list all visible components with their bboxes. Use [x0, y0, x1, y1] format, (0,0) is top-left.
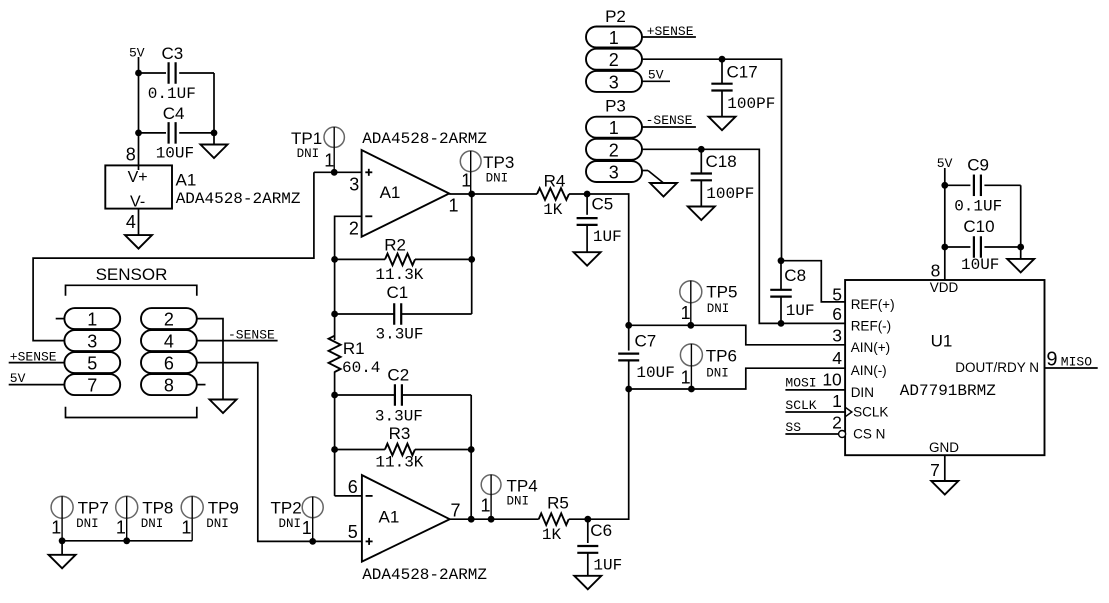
bracket SENSOR top — [66, 285, 197, 295]
connector SENSOR pin 5 — [64, 352, 120, 374]
svg-text:C8: C8 — [784, 266, 806, 285]
node junction TP2 — [309, 538, 316, 545]
wire feedback right vertical (output to R2/C1) — [471, 194, 473, 314]
svg-text:1: 1 — [480, 496, 490, 516]
wire C3 right side down — [213, 73, 215, 133]
capacitor C17 — [711, 59, 775, 116]
svg-text:6: 6 — [348, 477, 358, 497]
power net 5V (top-left) — [129, 46, 145, 61]
svg-text:1: 1 — [87, 310, 97, 330]
wire P2 pin 2 to C8/REF(+) — [641, 59, 782, 261]
svg-text:DNI: DNI — [279, 517, 302, 531]
node junction 5V-C3 — [135, 70, 142, 77]
pin 5 number U1 — [832, 284, 842, 304]
wire op-amp pin 3 input — [314, 171, 362, 173]
svg-text:DNI: DNI — [706, 366, 729, 380]
test point TP8 — [116, 496, 174, 541]
wire P3 pin 1 stub — [641, 126, 696, 128]
wire R5 node up to C7 bottom — [588, 389, 629, 519]
net label SS / wire CS — [785, 420, 838, 435]
ground (C3/C4) — [201, 133, 228, 158]
wire op-amp pin 6 input — [335, 495, 362, 497]
svg-text:1UF: 1UF — [786, 302, 815, 320]
svg-text:TP8: TP8 — [142, 499, 173, 518]
svg-text:1: 1 — [302, 518, 312, 538]
connector SENSOR pin 6 — [141, 352, 197, 374]
svg-text:1: 1 — [448, 195, 458, 215]
node junction TP6 — [688, 386, 695, 393]
node junction R2 right — [468, 256, 475, 263]
svg-text:C7: C7 — [635, 332, 657, 351]
pin 4 number U1 — [832, 348, 842, 368]
net label MOSI / wire DIN — [785, 376, 845, 391]
test point TP4 — [480, 475, 537, 520]
header P2 pin 3 — [586, 71, 642, 93]
bracket SENSOR bottom — [66, 407, 197, 418]
wire SENSOR pin 3 to op-amp input node — [33, 172, 314, 340]
IC U1 AD7791BRMZ body — [845, 280, 1044, 455]
node junction R4/C5 — [584, 191, 591, 198]
svg-text:2: 2 — [832, 412, 842, 432]
svg-text:0.1UF: 0.1UF — [148, 85, 196, 103]
svg-text:P2: P2 — [605, 7, 626, 26]
stub SENSOR pin 8 — [197, 384, 206, 386]
svg-text:TP3: TP3 — [483, 153, 514, 172]
wire SENSOR pin 4 — [197, 340, 278, 342]
header P3 title — [605, 97, 626, 116]
svg-text:A1: A1 — [379, 507, 400, 526]
node junction op-amp2 output — [468, 516, 475, 523]
resistor R1 — [329, 336, 381, 378]
node junction R2 left — [331, 256, 338, 263]
svg-text:1: 1 — [51, 518, 61, 538]
svg-text:TP6: TP6 — [706, 346, 737, 365]
wire U1 GND pin 7 — [944, 455, 946, 481]
svg-text:5: 5 — [832, 284, 842, 304]
ground (C9/C10) — [1007, 247, 1034, 272]
ground (U1) — [931, 481, 958, 495]
part number ADA4528-2ARMZ (top op-amp) — [362, 130, 487, 148]
svg-text:AIN(-): AIN(-) — [851, 363, 887, 378]
header P3 pin 1 — [586, 117, 642, 139]
svg-text:DIN: DIN — [851, 385, 874, 400]
wire 5V to U1 VDD pin 8 — [944, 168, 946, 280]
svg-text:DOUT/RDY N: DOUT/RDY N — [955, 360, 1039, 375]
pin 8 label A1 power — [126, 145, 136, 165]
svg-text:C17: C17 — [727, 62, 758, 81]
node junction C4 right — [211, 130, 218, 137]
svg-text:ADA4528-2ARMZ: ADA4528-2ARMZ — [362, 130, 487, 148]
svg-text:8: 8 — [164, 376, 174, 396]
svg-text:DNI: DNI — [486, 171, 509, 185]
wire P2 pin 3 stub — [641, 80, 670, 82]
capacitor C2 — [335, 365, 472, 425]
svg-text:TP1: TP1 — [291, 129, 322, 148]
op-amp A1 (top half ADA4528) — [349, 150, 459, 239]
svg-text:2: 2 — [349, 219, 359, 239]
net label +SENSE (sensor pin 5) — [10, 349, 57, 364]
svg-text:1: 1 — [681, 368, 691, 388]
node junction R3 left — [331, 446, 338, 453]
svg-text:CS N: CS N — [853, 427, 885, 442]
wire C8 top to U1 REF(+) — [781, 261, 845, 302]
connector SENSOR pin 2 — [141, 308, 197, 330]
svg-text:3.3UF: 3.3UF — [375, 407, 423, 425]
pin 4 label A1 power — [126, 212, 136, 232]
svg-text:1: 1 — [609, 118, 619, 138]
svg-text:AD7791BRMZ: AD7791BRMZ — [900, 382, 996, 400]
ground (C5) — [574, 252, 601, 266]
wire op-amp pin 2 input — [335, 216, 362, 259]
svg-text:4: 4 — [126, 212, 136, 232]
svg-text:DNI: DNI — [297, 147, 320, 161]
ground (sensor pin 2) — [210, 400, 237, 414]
svg-text:P3: P3 — [605, 97, 626, 116]
node junction TP1 — [331, 169, 338, 176]
capacitor C7 — [618, 325, 675, 389]
node junction C8 bottom — [778, 320, 785, 327]
svg-text:TP7: TP7 — [78, 499, 109, 518]
svg-text:R4: R4 — [544, 171, 566, 190]
wire op-amp output to R4 — [449, 193, 537, 195]
connector SENSOR pin 1 — [64, 308, 120, 330]
svg-text:MOSI: MOSI — [785, 376, 816, 391]
node junction C10 left — [941, 244, 948, 251]
svg-text:DNI: DNI — [141, 517, 164, 531]
svg-text:R1: R1 — [343, 339, 365, 358]
pin 7 number U1 — [930, 460, 940, 480]
svg-text:R3: R3 — [389, 424, 411, 443]
svg-text:MISO: MISO — [1061, 354, 1092, 369]
wire C2/R3 right vertical — [470, 395, 472, 519]
node junction C9 left — [941, 182, 948, 189]
svg-text:-SENSE: -SENSE — [646, 113, 693, 128]
svg-text:100PF: 100PF — [706, 185, 754, 203]
svg-text:REF(-): REF(-) — [851, 318, 892, 333]
svg-text:5: 5 — [348, 522, 358, 542]
clock symbol pin SCLK — [845, 407, 852, 417]
net label +SENSE (P2 pin 1) — [647, 24, 694, 39]
svg-text:5V: 5V — [648, 68, 664, 83]
svg-text:1: 1 — [832, 391, 842, 411]
svg-text:7: 7 — [87, 376, 97, 396]
header P2 title — [605, 7, 626, 26]
connector SENSOR pin 7 — [64, 374, 120, 396]
node junction TP8 — [123, 537, 130, 544]
ground (C18) — [688, 207, 715, 221]
svg-text:DNI: DNI — [507, 495, 530, 509]
test point TP3 — [460, 151, 514, 194]
svg-text:DNI: DNI — [707, 302, 730, 316]
svg-text:1UF: 1UF — [593, 556, 622, 574]
svg-text:1K: 1K — [543, 201, 563, 219]
svg-text:9: 9 — [1046, 348, 1057, 370]
pin 2 number U1 — [832, 412, 842, 432]
connector SENSOR pin 4 — [141, 330, 197, 352]
node junction C1 left — [331, 311, 338, 318]
svg-text:VDD: VDD — [930, 280, 959, 295]
node junction C7 bottom — [625, 386, 632, 393]
node junction R5/C6 — [584, 516, 591, 523]
node junction op-amp1 output — [468, 191, 475, 198]
capacitor C1 — [335, 283, 472, 344]
svg-text:3: 3 — [832, 326, 842, 346]
svg-text:10: 10 — [822, 369, 842, 389]
svg-text:C1: C1 — [387, 283, 409, 302]
svg-text:1: 1 — [609, 28, 619, 48]
capacitor C8 — [770, 261, 814, 323]
capacitor C18 — [691, 149, 755, 206]
wire P2 pin 1 stub — [641, 36, 696, 38]
wire P3 pin 3 to ground — [641, 171, 664, 184]
svg-text:C9: C9 — [967, 155, 989, 174]
svg-text:1K: 1K — [542, 526, 562, 544]
svg-text:3.3UF: 3.3UF — [376, 326, 424, 344]
svg-text:ADA4528-2ARMZ: ADA4528-2ARMZ — [362, 566, 487, 584]
svg-text:11.3K: 11.3K — [375, 266, 423, 284]
svg-text:GND: GND — [929, 440, 959, 455]
svg-text:R5: R5 — [547, 494, 569, 513]
test point TP5 — [680, 281, 738, 326]
svg-text:SCLK: SCLK — [853, 405, 888, 420]
power net 5V (C9/C10) — [937, 156, 953, 171]
svg-text:6: 6 — [164, 354, 174, 374]
svg-text:R2: R2 — [384, 236, 406, 255]
svg-text:ADA4528-2ARMZ: ADA4528-2ARMZ — [176, 190, 301, 208]
header P3 pin 3 — [586, 161, 642, 183]
net label 5V (sensor pin 7) — [10, 371, 26, 386]
test point TP1 — [291, 127, 344, 172]
svg-text:2: 2 — [609, 50, 619, 70]
wire TP7-TP9 common — [62, 540, 192, 542]
connector SENSOR pin 8 — [141, 374, 197, 396]
wire C7 bottom row to U1 AIN(-) — [629, 368, 845, 389]
svg-text:SENSOR: SENSOR — [96, 265, 168, 284]
svg-text:C3: C3 — [162, 44, 184, 63]
pin 8 number U1 — [931, 260, 941, 280]
node junction TP5 — [687, 322, 694, 329]
capacitor C3 — [139, 44, 215, 103]
svg-text:0.1UF: 0.1UF — [954, 197, 1002, 215]
svg-text:C10: C10 — [963, 217, 994, 236]
svg-text:8: 8 — [126, 145, 136, 165]
wire R4 node to C7 top — [587, 194, 629, 325]
svg-text:1: 1 — [181, 518, 191, 538]
net label -SENSE (sensor pin 4) — [228, 327, 275, 342]
capacitor C5 — [577, 194, 622, 252]
svg-text:6: 6 — [832, 304, 842, 324]
ground (TP7) — [49, 541, 76, 569]
wire A1 V- down — [138, 208, 140, 235]
svg-text:5: 5 — [87, 354, 97, 374]
svg-text:DNI: DNI — [206, 517, 229, 531]
ground (C6) — [574, 576, 601, 590]
svg-text:SCLK: SCLK — [785, 398, 816, 413]
svg-text:U1: U1 — [931, 331, 953, 350]
svg-text:60.4: 60.4 — [342, 359, 380, 377]
capacitor C10 — [945, 217, 1021, 274]
node junction R3 right — [468, 446, 475, 453]
resistor R5 — [450, 494, 588, 544]
svg-text:2: 2 — [164, 310, 174, 330]
node junction C17 — [719, 56, 726, 63]
capacitor C9 — [945, 155, 1021, 215]
pin 3 number U1 — [832, 326, 842, 346]
node junction C4 left — [135, 130, 142, 137]
svg-text:10UF: 10UF — [636, 364, 674, 382]
svg-text:7: 7 — [450, 501, 460, 521]
svg-text:C2: C2 — [387, 365, 409, 384]
stub SENSOR pin 1 — [56, 318, 65, 320]
connector SENSOR pin 3 — [64, 330, 120, 352]
svg-text:1: 1 — [116, 518, 126, 538]
svg-text:A1: A1 — [380, 183, 401, 202]
svg-text:7: 7 — [930, 460, 940, 480]
wire SENSOR pin 5 — [9, 362, 65, 364]
svg-text:4: 4 — [832, 348, 842, 368]
node junction TP7 — [59, 537, 66, 544]
svg-text:DNI: DNI — [76, 517, 99, 531]
svg-text:3: 3 — [609, 72, 619, 92]
pin 9 number U1 and net label MISO — [1046, 348, 1092, 370]
svg-text:8: 8 — [931, 260, 941, 280]
svg-text:A1: A1 — [176, 170, 197, 189]
svg-text:3: 3 — [609, 163, 619, 183]
net label SCLK / wire SCLK — [785, 398, 845, 413]
wire op-amp2 output to R5 — [0, 0, 1, 1]
svg-text:1: 1 — [324, 150, 334, 170]
part number ADA4528-2ARMZ (bottom op-amp) — [362, 566, 487, 584]
test point TP7 — [51, 496, 109, 541]
svg-text:TP4: TP4 — [507, 476, 538, 495]
wire C9 right side down — [1020, 185, 1022, 247]
inverter bubble pin CS — [839, 431, 846, 438]
net label -SENSE (P3 pin 1) — [646, 113, 693, 128]
svg-text:REF(+): REF(+) — [851, 297, 895, 312]
test point TP2 — [271, 497, 324, 542]
svg-text:TP9: TP9 — [208, 499, 239, 518]
svg-text:1: 1 — [681, 303, 691, 323]
wire SENSOR pin 7 — [9, 384, 65, 386]
svg-text:100PF: 100PF — [727, 95, 775, 113]
op-amp power block A1 — [105, 165, 301, 210]
wire C4 to A1 V+ — [138, 133, 140, 170]
op-amp A1 (bottom half ADA4528) — [348, 475, 461, 561]
svg-text:5V: 5V — [129, 46, 145, 61]
node junction C2 left — [331, 392, 338, 399]
ground (P3 pin 3) — [650, 183, 677, 197]
svg-text:C4: C4 — [163, 104, 185, 123]
svg-text:1: 1 — [461, 171, 471, 191]
resistor R4 — [537, 171, 587, 219]
node junction C7 top — [625, 322, 632, 329]
pin 6 number U1 — [832, 304, 842, 324]
svg-text:1UF: 1UF — [593, 228, 622, 246]
connector SENSOR title — [96, 265, 168, 284]
svg-text:10UF: 10UF — [961, 256, 999, 274]
wire 5V vertical to C3/C4 — [138, 57, 140, 133]
node junction TP4 — [488, 516, 495, 523]
svg-text:V+: V+ — [128, 169, 148, 186]
header P3 pin 2 — [586, 139, 642, 161]
svg-text:C5: C5 — [592, 195, 614, 214]
node junction C18 — [698, 146, 705, 153]
pin 1 number U1 — [832, 391, 842, 411]
svg-text:3: 3 — [87, 332, 97, 352]
wire SENSOR pin 6 to op-amp pin 5 — [197, 363, 362, 542]
resistor R3 — [335, 424, 472, 472]
capacitor C6 — [577, 519, 622, 576]
svg-text:11.3K: 11.3K — [375, 454, 423, 472]
svg-text:AIN(+): AIN(+) — [851, 340, 890, 355]
ground (A1 power) — [125, 235, 152, 249]
svg-text:C18: C18 — [706, 152, 737, 171]
node junction C8 top — [778, 257, 785, 264]
test point TP9 — [181, 496, 239, 541]
svg-text:2: 2 — [609, 140, 619, 160]
wire P3 pin 2 to REF(-) — [641, 149, 845, 323]
node junction C10 right — [1017, 244, 1024, 251]
wire DOUT/RDY pin 9 — [1045, 367, 1098, 369]
svg-text:10UF: 10UF — [156, 145, 194, 163]
net label 5V (P2 pin 3) — [648, 68, 664, 83]
svg-text:3: 3 — [349, 174, 359, 194]
wire C7 top row to U1 AIN(+) — [629, 325, 845, 345]
ground (C17) — [709, 117, 736, 131]
wire SENSOR pin 2 to ground — [197, 319, 223, 400]
svg-text:V-: V- — [130, 194, 145, 211]
svg-text:C6: C6 — [590, 521, 612, 540]
header P2 pin 2 — [586, 49, 642, 70]
test point TP6 — [680, 344, 737, 389]
capacitor C4 — [139, 104, 215, 163]
svg-text:SS: SS — [785, 420, 801, 435]
header P2 pin 1 — [586, 27, 642, 49]
svg-text:TP5: TP5 — [706, 283, 737, 302]
svg-text:4: 4 — [164, 332, 174, 352]
pin 10 number U1 — [822, 369, 842, 389]
resistor R2 — [335, 236, 472, 285]
wire left feedback vertical chain — [334, 259, 336, 496]
svg-text:TP2: TP2 — [271, 499, 302, 518]
